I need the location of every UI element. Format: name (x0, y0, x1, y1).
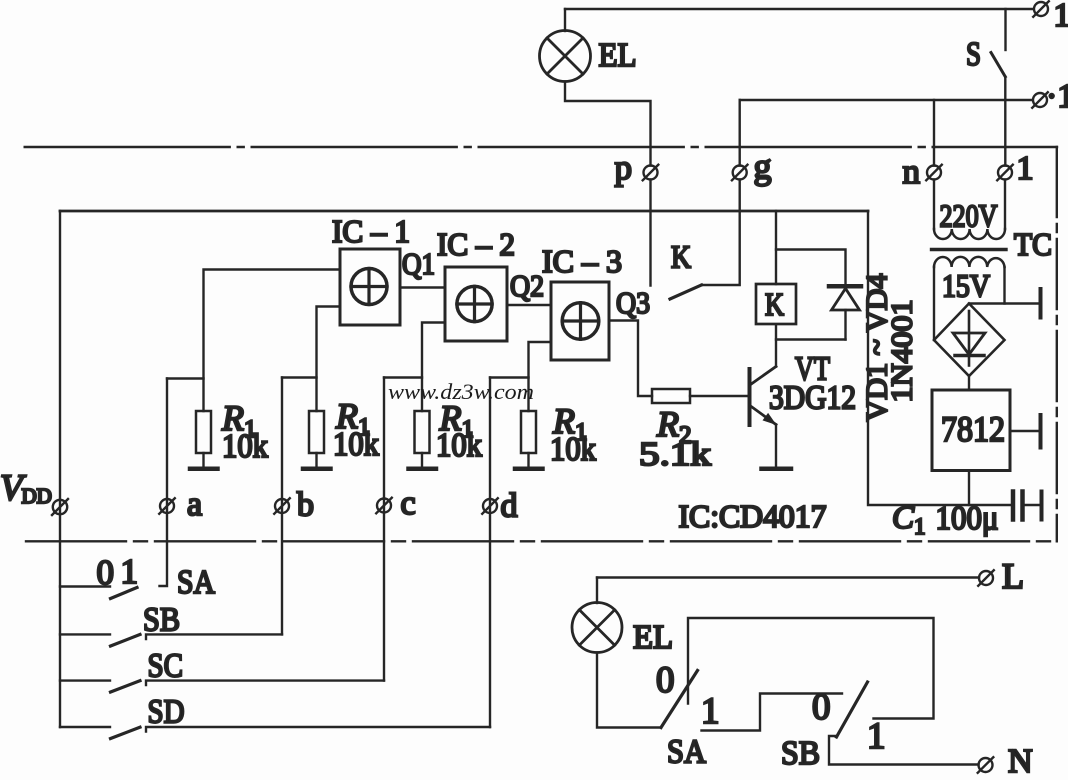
terminal a (159, 498, 175, 514)
wire SA-0 to SB-1 link (688, 618, 934, 719)
lamp EL (bottom) riser (596, 578, 598, 604)
switch S upper leg (1004, 9, 1006, 50)
svg-text:Q2: Q2 (510, 268, 544, 303)
wire R1b top to IC-1 lower left (317, 307, 341, 412)
wire bridge common to chassis bar (969, 302, 1039, 304)
svg-text:p: p (615, 148, 633, 187)
wire node b link (282, 376, 317, 378)
enclosure boundary dash-dot right (1056, 147, 1058, 541)
switch SB (bottom) blade (837, 682, 868, 737)
wire VT collector to relay K (775, 325, 777, 367)
svg-text:EL: EL (633, 619, 673, 656)
wire lamp EL bottom to node p (565, 82, 651, 166)
svg-text:Q3: Q3 (616, 285, 650, 320)
lamp EL (bottom) (572, 603, 622, 653)
switch SA blade (111, 588, 138, 599)
IC-2 block (445, 267, 507, 341)
power section left bus (868, 211, 1010, 505)
wire p to switch K left contact (649, 180, 651, 286)
switch K blade (670, 285, 702, 299)
enclosure boundary dash-dot top (25, 146, 1057, 148)
svg-text:0: 0 (97, 553, 115, 592)
svg-text:L: L (1002, 556, 1024, 596)
svg-text:0: 0 (656, 660, 675, 701)
switch SD stub (60, 726, 110, 728)
terminal c (376, 498, 392, 514)
wire node g rail (740, 99, 1033, 101)
wire node a vertical (160, 379, 168, 587)
svg-text:IC – 3: IC – 3 (542, 243, 622, 279)
wire 7812 bottom pin (968, 471, 970, 506)
svg-text:1N4001: 1N4001 (886, 300, 919, 403)
svg-text:SD: SD (148, 694, 185, 731)
svg-text:c: c (401, 485, 416, 522)
wire Q2 output (507, 304, 551, 306)
svg-text:0: 0 (812, 687, 831, 728)
wire Q3 output to R2 (609, 321, 652, 397)
chassis bar (7812 gnd) (1039, 415, 1043, 448)
svg-text:Q1: Q1 (402, 246, 435, 281)
svg-text:1: 1 (1054, 0, 1068, 34)
switch SB stub (60, 633, 110, 635)
svg-text:IC – 2: IC – 2 (437, 226, 515, 262)
svg-text:EL: EL (599, 37, 637, 74)
svg-text:1: 1 (1017, 150, 1034, 187)
svg-text:7812: 7812 (941, 409, 1005, 449)
svg-text:www.dz3w.com: www.dz3w.com (388, 379, 534, 404)
wire node d link (490, 376, 529, 378)
svg-text:SB: SB (781, 735, 820, 772)
resistor R1 c (409, 411, 437, 469)
wire diode branch bottom (776, 338, 846, 340)
svg-text:100μ: 100μ (936, 500, 999, 537)
svg-text:n: n (903, 152, 921, 191)
wire top rail to terminal 1 (565, 8, 1034, 10)
terminal n (926, 165, 942, 181)
transformer TC core (932, 248, 1007, 251)
lamp EL top riser (564, 9, 566, 31)
wire g down to switch K right (702, 180, 740, 286)
chassis bar (secondary common) (1039, 289, 1043, 318)
wire bridge to 7812 (968, 376, 970, 390)
capacitor C1 (1013, 492, 1042, 520)
svg-text:5.1k: 5.1k (639, 436, 711, 473)
terminal dot-1 (right, y=100) (1032, 92, 1048, 108)
wire Q1 output (400, 286, 445, 288)
svg-text:DD: DD (22, 484, 52, 508)
terminal d (482, 498, 498, 514)
svg-text:10k: 10k (436, 427, 482, 464)
diode VD (freewheel) (829, 286, 861, 339)
switch S lower leg wire (1004, 77, 1006, 166)
terminal p (643, 165, 659, 181)
transistor VT (750, 367, 792, 469)
wire SC contact line (146, 681, 384, 685)
wire node b vertical (281, 378, 283, 635)
wire SB common to N (829, 736, 979, 765)
main box left edge bus (59, 211, 61, 727)
svg-text:SA: SA (667, 734, 706, 771)
enclosure boundary dash-dot bottom (26, 540, 1057, 542)
wire SB contact line (146, 634, 282, 639)
switch SC blade (111, 681, 141, 692)
bridge rectifier VD1-VD4 (934, 304, 1005, 377)
svg-text:g: g (754, 147, 772, 187)
terminal b (274, 498, 290, 514)
wire node c link (384, 376, 422, 378)
wire R1a top to IC-1 input (204, 270, 341, 412)
svg-text:IC – 1: IC – 1 (332, 213, 410, 249)
wire R1d top to IC-3 lower left (529, 342, 552, 411)
svg-text:IC:CD4017: IC:CD4017 (679, 498, 827, 534)
switch SA stub (60, 585, 110, 587)
wire diode branch top (776, 250, 846, 284)
lamp EL (top) (540, 31, 591, 82)
svg-text:K: K (765, 286, 784, 322)
wire SA-1 to SB-0 link (702, 694, 843, 731)
svg-text:10k: 10k (333, 426, 379, 463)
main box top border (V+ rail) (60, 210, 868, 213)
terminal L (978, 570, 994, 586)
transformer TC secondary (934, 257, 1005, 340)
svg-text:·1: ·1 (1046, 78, 1068, 115)
svg-text:a: a (187, 486, 202, 523)
switch SD blade (111, 727, 141, 738)
wire 7812 ground pin (1010, 430, 1039, 432)
svg-text:15V: 15V (942, 268, 990, 304)
terminal g (732, 165, 748, 181)
svg-text:SC: SC (148, 648, 184, 685)
resistor R1 a (190, 411, 218, 469)
svg-text:d: d (501, 488, 518, 525)
svg-text:10k: 10k (550, 431, 596, 468)
svg-text:S: S (966, 36, 981, 73)
svg-text:220V: 220V (940, 198, 998, 234)
switch S blade (991, 53, 1005, 77)
regulator 7812 (932, 390, 1010, 471)
svg-text:b: b (297, 487, 314, 524)
terminal 1 (transformer) (997, 165, 1013, 181)
IC-3 block (551, 282, 609, 360)
IC-1 block (340, 249, 400, 325)
wire L rail (597, 576, 979, 578)
svg-text:1: 1 (121, 552, 139, 591)
transformer TC primary (934, 180, 1005, 240)
svg-text:3DG12: 3DG12 (769, 380, 856, 417)
terminal N (978, 757, 994, 773)
terminal VDD (52, 499, 68, 515)
svg-text:1: 1 (701, 691, 720, 732)
svg-text:10k: 10k (222, 428, 268, 465)
svg-text:SA: SA (177, 564, 215, 601)
svg-text:TC: TC (1014, 226, 1052, 262)
svg-text:N: N (1008, 743, 1033, 780)
svg-text:K: K (671, 239, 691, 275)
relay coil K (756, 284, 796, 324)
wire lamp to SA common (597, 653, 661, 728)
wire relay K to V+ rail (775, 211, 777, 284)
wire terminal n up to rail (933, 100, 935, 166)
switch SC stub (60, 679, 110, 681)
switch SA (bottom) blade (661, 671, 698, 728)
wire SD contact line (146, 727, 490, 732)
wire g vertical upper (739, 100, 741, 166)
switch SB blade (111, 635, 141, 647)
resistor R2 (652, 389, 690, 403)
wire R1c top to IC-2 lower left (422, 323, 445, 412)
wire node c vertical (383, 378, 385, 681)
resistor R1 b (303, 411, 331, 469)
wire node a link (167, 377, 204, 379)
svg-text:1: 1 (867, 716, 886, 757)
resistor R1 d (515, 411, 543, 469)
wire node d vertical (489, 378, 491, 728)
svg-text:SB: SB (143, 602, 180, 639)
terminal 1 (top right) (1033, 1, 1049, 17)
wire R2 to VT base (690, 395, 748, 397)
